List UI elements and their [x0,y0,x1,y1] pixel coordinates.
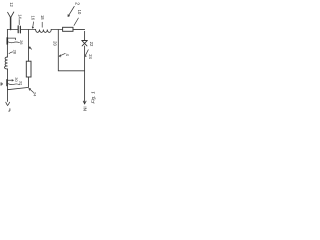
svg-text:20: 20 [52,41,57,46]
svg-text:16: 16 [31,16,36,21]
svg-text:Fig. 1: Fig. 1 [91,91,97,104]
svg-text:2: 2 [74,2,80,5]
svg-text:18: 18 [40,15,45,20]
svg-text:IN: IN [83,106,88,111]
svg-text:10: 10 [77,10,82,15]
svg-text:14: 14 [17,14,22,19]
svg-text:26: 26 [19,40,24,45]
svg-text:4: 4 [65,54,70,57]
svg-text:28: 28 [12,50,17,55]
svg-text:34: 34 [33,92,38,97]
svg-text:12: 12 [9,2,14,7]
svg-text:30: 30 [14,77,19,82]
svg-text:22: 22 [89,42,94,47]
svg-text:32: 32 [18,81,23,86]
svg-text:24: 24 [88,54,93,59]
